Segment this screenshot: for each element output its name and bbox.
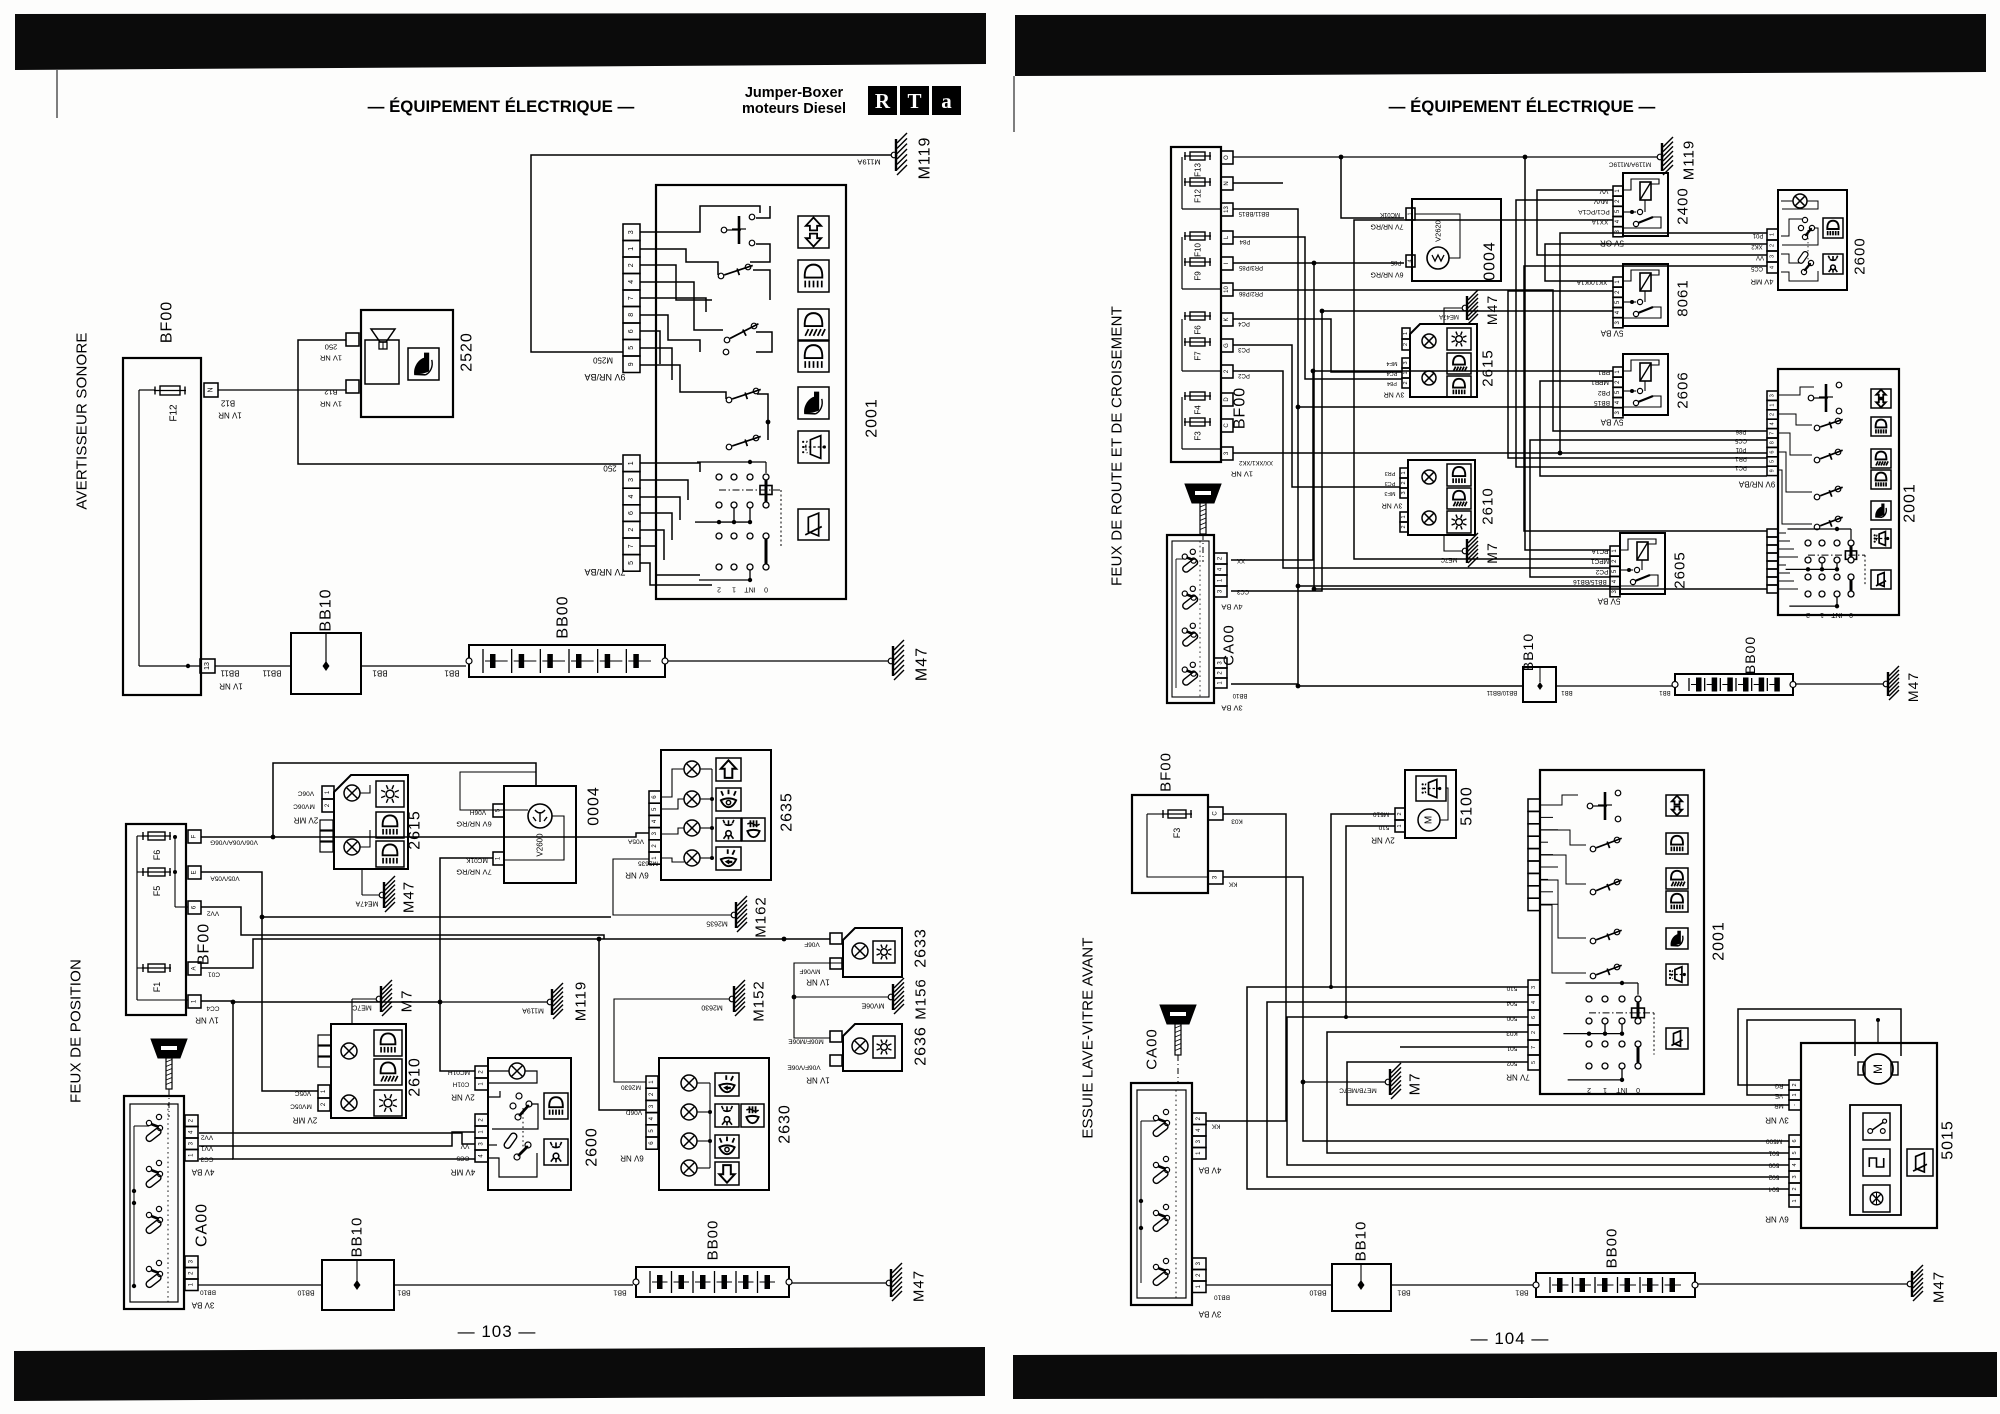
svg-text:7V NR/RG: 7V NR/RG [456, 868, 492, 877]
svg-text:BB00: BB00 [1604, 1228, 1621, 1269]
ground M47 (BR) [1907, 1281, 1913, 1287]
2600 contacts [516, 1093, 522, 1099]
svg-text:510: 510 [1506, 985, 1517, 992]
horn icon [408, 348, 439, 380]
svg-text:ME7B/ME7C: ME7B/ME7C [1339, 1087, 1377, 1094]
icon wiper [798, 509, 829, 540]
svg-text:F10: F10 [1194, 243, 1203, 257]
lamp 2615 b [344, 839, 360, 855]
svg-text:MV06F: MV06F [799, 968, 820, 975]
svg-text:250: 250 [603, 464, 617, 473]
svg-text:XK1/XK1A: XK1/XK1A [1576, 279, 1607, 286]
icon low beam 2600 [544, 1093, 568, 1119]
svg-text:a: a [941, 89, 952, 113]
ignition switch CA00 (BR) [1131, 1083, 1192, 1305]
svg-text:1: 1 [1401, 515, 1407, 518]
svg-text:V05A: V05A [627, 838, 644, 845]
svg-text:MV05C: MV05C [290, 1103, 312, 1110]
svg-text:5: 5 [628, 346, 635, 350]
icon fog 2630 [741, 1104, 764, 1127]
lamp V2600 [528, 804, 552, 828]
svg-text:MV06C: MV06C [293, 803, 315, 810]
svg-text:4V MR: 4V MR [451, 1168, 476, 1177]
svg-text:1V NR: 1V NR [1230, 470, 1253, 479]
svg-text:BB1: BB1 [1515, 1289, 1528, 1296]
svg-text:K03: K03 [1231, 818, 1243, 825]
svg-text:0: 0 [1849, 611, 1853, 618]
fuse F10 (104) [1184, 235, 1211, 237]
svg-text:4: 4 [628, 494, 635, 498]
svg-text:2600: 2600 [584, 1127, 601, 1167]
svg-text:1: 1 [1603, 1086, 1607, 1093]
junction box BB10 (104) [1523, 667, 1556, 702]
pin L (104) [1221, 231, 1233, 244]
lower strip (BR) [1528, 980, 1540, 995]
svg-text:3: 3 [1401, 491, 1407, 494]
svg-text:9: 9 [1770, 469, 1776, 472]
svg-text:2610: 2610 [407, 1057, 424, 1097]
svg-text:3: 3 [628, 478, 635, 482]
motor 5015 [1863, 1054, 1893, 1084]
svg-text:CA00: CA00 [1221, 624, 1238, 666]
svg-text:504: 504 [1506, 1000, 1517, 1007]
icon contact 5015 [1863, 1113, 1890, 1140]
svg-text:M156: M156 [913, 978, 930, 1020]
license lamp 2633 [843, 928, 902, 977]
control box 5015 [1850, 1105, 1901, 1215]
svg-text:3V BA: 3V BA [1221, 704, 1242, 713]
svg-text:P85: P85 [1390, 259, 1401, 265]
pin 13 [200, 659, 215, 673]
svg-text:— 103 —: — 103 — [458, 1322, 537, 1341]
svg-text:4V MR: 4V MR [1750, 278, 1774, 287]
svg-text:CC4: CC4 [206, 1005, 219, 1012]
svg-text:V05/V05A: V05/V05A [210, 875, 240, 882]
icon wiper 5015 [1907, 1149, 1933, 1176]
icon arrow up 2635 [716, 758, 741, 781]
svg-text:ESSUIE LAVE-VITRE AVANT: ESSUIE LAVE-VITRE AVANT [1080, 937, 1097, 1138]
lamps 2610 (104) [1422, 470, 1436, 484]
svg-text:BB15: BB15 [1594, 399, 1610, 406]
pins 2630 [646, 1076, 658, 1088]
svg-text:M7: M7 [399, 990, 416, 1013]
svg-text:1: 1 [1792, 1093, 1798, 1096]
svg-text:V06/V06A/V06G: V06/V06A/V06G [210, 839, 258, 846]
svg-text:M119A: M119A [522, 1007, 544, 1014]
svg-text:N: N [208, 387, 215, 392]
pin I (104) [1221, 257, 1233, 270]
switch contact 4 [726, 397, 732, 403]
svg-text:4V BA: 4V BA [1221, 603, 1242, 612]
svg-text:2V MR: 2V MR [294, 816, 319, 825]
inner horn outline [365, 340, 399, 384]
wire to ground M47 (BL) [792, 1282, 887, 1284]
svg-text:500: 500 [1506, 1015, 1517, 1022]
svg-text:M2630: M2630 [621, 1084, 641, 1091]
svg-text:AVERTISSEUR SONORE: AVERTISSEUR SONORE [74, 332, 91, 509]
svg-text:PR3/P85: PR3/P85 [1238, 264, 1263, 270]
svg-text:MF4: MF4 [1387, 360, 1398, 366]
pin O (104) [1221, 151, 1233, 164]
svg-text:2615: 2615 [1480, 349, 1497, 386]
switch hazard (BR) [1587, 803, 1593, 809]
icon wash wipe [798, 431, 829, 463]
interior lamp 0004 (104) [1412, 199, 1501, 281]
svg-text:2633: 2633 [913, 928, 930, 968]
wire horn to column switch [382, 342, 384, 349]
svg-text:502: 502 [1506, 1060, 1517, 1067]
svg-text:F12: F12 [169, 404, 180, 422]
svg-text:V06F/V06E: V06F/V06E [787, 1064, 821, 1071]
lamp 2610 a [341, 1043, 357, 1059]
svg-text:M119: M119 [1681, 140, 1698, 180]
svg-text:7: 7 [1531, 1046, 1537, 1049]
CA00 pins lower (BR) [1192, 1258, 1206, 1270]
svg-text:ME47A: ME47A [355, 900, 378, 907]
svg-text:M47: M47 [911, 1270, 928, 1302]
svg-text:MV06E: MV06E [861, 1002, 884, 1009]
rotary matrix (104) [1787, 528, 1851, 530]
ground M119 (BL) [547, 999, 553, 1005]
svg-text:O: O [1224, 155, 1230, 160]
rotary matrix (BR) [1566, 982, 1638, 984]
svg-text:BB00: BB00 [1742, 636, 1758, 674]
svg-text:B12: B12 [324, 388, 337, 397]
svg-text:9: 9 [628, 362, 635, 366]
svg-text:M47: M47 [1905, 672, 1921, 702]
svg-text:5: 5 [1531, 1061, 1537, 1064]
svg-text:C01H: C01H [452, 1081, 469, 1088]
svg-text:2001: 2001 [864, 398, 881, 438]
svg-text:2: 2 [1792, 1083, 1798, 1086]
bus CA00 to BB10 (page 103 bottom) [198, 1284, 322, 1286]
svg-text:2635: 2635 [779, 792, 796, 832]
icon 2636 [873, 1036, 895, 1058]
svg-text:5: 5 [1770, 460, 1776, 463]
fuse F7 (104) [1184, 341, 1211, 343]
svg-text:3: 3 [628, 230, 635, 234]
interior light 0004 [504, 786, 576, 883]
svg-text:P84: P84 [1239, 238, 1250, 244]
svg-text:6V NR: 6V NR [1765, 1215, 1789, 1224]
battery BB00 (BL) [636, 1267, 789, 1297]
icon high beam [798, 309, 829, 340]
svg-text:C: C [1213, 811, 1219, 816]
svg-text:M119A/M119C: M119A/M119C [1608, 161, 1651, 168]
svg-text:ME7C: ME7C [352, 1004, 371, 1011]
switch contact 3 [724, 337, 730, 343]
svg-text:BB11: BB11 [220, 669, 240, 678]
pin G (104) [1221, 339, 1233, 352]
pins 2600 upper [475, 1066, 488, 1078]
pin 1 [188, 995, 201, 1008]
pin A [188, 962, 201, 975]
svg-text:F3: F3 [1172, 828, 1182, 839]
pin C (BR) [1208, 807, 1223, 820]
front right light cluster 2610 [331, 1024, 406, 1118]
svg-text:BB15/BB16: BB15/BB16 [1573, 578, 1607, 585]
svg-text:F: F [192, 834, 198, 838]
svg-text:F9: F9 [1194, 271, 1203, 281]
icon low beam [798, 260, 829, 292]
bottom black bar page 104 [1013, 1352, 1997, 1399]
svg-text:M7: M7 [1484, 542, 1500, 563]
pin + 2520 [346, 333, 359, 346]
svg-text:-: - [1792, 1104, 1798, 1106]
contacts 2001-104 [1814, 425, 1820, 431]
ground M7 (2610) [351, 999, 353, 1024]
svg-text:BB1: BB1 [372, 669, 388, 678]
svg-text:4: 4 [628, 280, 635, 284]
svg-text:BB10: BB10 [1520, 633, 1536, 671]
ground M47 [888, 658, 894, 664]
svg-text:V06F: V06F [804, 941, 820, 948]
RTA logo [868, 86, 897, 115]
wire BB00 to ground [668, 660, 889, 662]
svg-text:2: 2 [1401, 481, 1407, 484]
svg-text:1: 1 [1792, 1199, 1798, 1202]
svg-text:BB10: BB10 [200, 1289, 216, 1296]
svg-text:1V NR: 1V NR [319, 400, 342, 409]
icon turn signals [798, 216, 829, 248]
switch hazard [721, 227, 727, 233]
relay 8061 [1623, 264, 1668, 326]
svg-text:VV2: VV2 [206, 910, 219, 917]
svg-text:1V NR: 1V NR [806, 978, 830, 987]
svg-text:7V NR/RG: 7V NR/RG [1370, 223, 1403, 230]
svg-text:2: 2 [628, 263, 635, 267]
svg-text:MPB1: MPB1 [1591, 379, 1609, 386]
icons 2001-104 [1871, 389, 1891, 408]
svg-text:M7: M7 [1407, 1073, 1424, 1096]
icon eye 2635 [716, 788, 741, 811]
svg-text:F6: F6 [152, 850, 162, 861]
fuse F3 (104) [1184, 421, 1211, 423]
svg-text:C: C [1224, 423, 1230, 428]
svg-text:1V NR: 1V NR [195, 1016, 219, 1025]
svg-text:2V NR: 2V NR [1371, 836, 1395, 845]
svg-text:2: 2 [1770, 413, 1776, 416]
svg-text:2606: 2606 [1675, 371, 1692, 408]
icon 2633 [873, 941, 895, 963]
page divider line [1013, 76, 1015, 132]
svg-text:INT: INT [1616, 1086, 1628, 1093]
svg-text:N: N [1224, 181, 1230, 185]
ground M152 [614, 999, 731, 1082]
CA00 pins upper (BR) [1192, 1113, 1206, 1125]
wire M119 to column switch [531, 155, 893, 352]
svg-text:VV2: VV2 [200, 1134, 213, 1141]
fuse F12 (104) [1184, 181, 1211, 183]
svg-text:2630: 2630 [777, 1104, 794, 1144]
svg-text:9V NR/BA: 9V NR/BA [1738, 480, 1775, 489]
svg-text:250: 250 [325, 343, 338, 352]
icon pos star 2610 [374, 1090, 402, 1116]
ground M7 (BR) [1301, 1080, 1306, 1085]
pins 5015 upper [1789, 1080, 1801, 1090]
svg-text:5100: 5100 [1459, 786, 1476, 826]
pin 2 (104) [1221, 365, 1233, 378]
svg-text:M119: M119 [573, 981, 590, 1021]
svg-text:PC3: PC3 [1385, 480, 1396, 486]
horn 2520 [361, 310, 453, 417]
svg-text:FEUX DE ROUTE ET DE CROISEMENT: FEUX DE ROUTE ET DE CROISEMENT [1109, 306, 1126, 586]
icon high beam 2615 [376, 841, 404, 867]
svg-text:BF00: BF00 [196, 923, 213, 965]
svg-text:3: 3 [1770, 394, 1776, 397]
lamp V2620 [1427, 247, 1449, 269]
svg-text:1V NR: 1V NR [218, 411, 242, 420]
svg-text:PB1: PB1 [1597, 369, 1610, 376]
TR wires to 2600/2001 [1560, 233, 1767, 453]
icon wave 5015 [1863, 1149, 1890, 1176]
washer icon 5100 [1416, 776, 1446, 801]
svg-text:PC2: PC2 [1238, 372, 1250, 378]
wire B12 1V NR [218, 389, 346, 391]
svg-text:D: D [1224, 397, 1230, 402]
svg-text:3V NR: 3V NR [1765, 1116, 1789, 1125]
svg-text:0004: 0004 [586, 786, 603, 826]
svg-text:4V BA: 4V BA [1198, 1166, 1221, 1175]
fuse F4 (104) [1184, 395, 1211, 397]
svg-text:K: K [1224, 317, 1230, 321]
svg-text:F6: F6 [1194, 325, 1203, 335]
svg-text:V2620: V2620 [1434, 220, 1443, 242]
wiper motor unit 5015 [1801, 1043, 1937, 1228]
icon arrow down 2630 [715, 1162, 739, 1185]
svg-text:BB11: BB11 [262, 669, 282, 678]
svg-text:8: 8 [628, 313, 635, 317]
pin 13 (104) [1221, 203, 1233, 216]
svg-text:9V NR/BA: 9V NR/BA [584, 372, 625, 382]
svg-text:4: 4 [1408, 259, 1414, 262]
svg-text:BB00: BB00 [555, 595, 572, 638]
svg-text:2: 2 [628, 528, 635, 532]
svg-text:1: 1 [628, 247, 635, 251]
lamp 2636 [852, 1038, 868, 1054]
pins 2635 [649, 791, 661, 803]
ground M47 (2615-104) [1444, 308, 1464, 324]
ground M119 [891, 152, 897, 158]
headlight switch 2600 [488, 1058, 571, 1190]
CA00 pins lower (104) [1214, 658, 1227, 668]
fuse box BF00 (position lights) [126, 824, 186, 1015]
svg-text:FEUX DE POSITION: FEUX DE POSITION [68, 959, 85, 1103]
svg-text:MF3: MF3 [1385, 490, 1396, 496]
svg-text:2: 2 [1806, 611, 1810, 618]
ground M119 (104) [1233, 156, 1658, 158]
svg-text:4: 4 [1770, 266, 1776, 269]
svg-text:2001: 2001 [1711, 921, 1728, 961]
svg-text:MVV: MVV [1593, 198, 1608, 205]
svg-text:BB1: BB1 [397, 1289, 410, 1296]
column switch 2001 (BR) [1540, 770, 1704, 1094]
svg-text:G: G [1224, 343, 1230, 348]
switch hazard (104) [1808, 395, 1814, 401]
contacts 2001-BR [1590, 846, 1596, 852]
ground M47 (2615) [361, 869, 363, 895]
TR relay feed wires [1537, 190, 1767, 255]
svg-text:7: 7 [1770, 432, 1776, 435]
ground M156 [794, 963, 842, 1038]
svg-text:M06F/M06E: M06F/M06E [788, 1038, 824, 1045]
pin N [204, 383, 218, 397]
wiper rotary matrix [640, 463, 700, 472]
svg-text:510: 510 [1378, 824, 1389, 831]
fuse F13 (104) [1184, 155, 1211, 157]
svg-text:M47: M47 [1931, 1271, 1948, 1303]
svg-text:8061: 8061 [1675, 279, 1692, 316]
svg-text:2: 2 [1403, 381, 1409, 384]
svg-text:M2635: M2635 [706, 920, 728, 927]
rear right light cluster 2630 [659, 1058, 769, 1190]
CA00 pins upper [185, 1115, 198, 1127]
svg-text:501: 501 [1506, 1045, 1517, 1052]
svg-text:M2630: M2630 [701, 1004, 723, 1011]
ground M7 (2610-104) [1444, 535, 1464, 551]
svg-text:7: 7 [628, 544, 635, 548]
lamp 2600 (104) [1793, 194, 1807, 208]
icon low beam 2610 [374, 1059, 402, 1085]
wires 2001 to 5015 [1247, 987, 1789, 1189]
svg-text:3V BA: 3V BA [191, 1301, 214, 1310]
icon low beam 2615 [376, 812, 404, 838]
pins 0004 [493, 804, 504, 817]
icon low beam 2600 (104) [1823, 218, 1843, 238]
pin F [188, 830, 201, 843]
pins 2615 [322, 786, 334, 799]
fuse F6 [142, 835, 171, 837]
svg-text:2: 2 [1792, 1187, 1798, 1190]
fuse box BF00 (page 104) [1171, 147, 1221, 462]
bottom black bar page 103 [14, 1347, 985, 1401]
icons 2615 (104) [1447, 328, 1471, 350]
svg-text:5: 5 [628, 561, 635, 565]
BL long wires [201, 833, 649, 837]
switch contact 5 [726, 444, 732, 450]
ignition key (104) [1185, 484, 1221, 503]
svg-text:0: 0 [764, 586, 768, 593]
svg-text:M2635: M2635 [638, 860, 658, 867]
svg-text:moteurs Diesel: moteurs Diesel [742, 101, 846, 117]
upper connector stack (BR) [1528, 799, 1540, 811]
svg-text:5015: 5015 [1940, 1120, 1957, 1160]
CA00 pins upper (104) [1214, 553, 1227, 564]
front right cluster 2610 (104) [1408, 460, 1475, 535]
svg-text:4V BA: 4V BA [191, 1168, 214, 1177]
svg-text:BB10: BB10 [1309, 1289, 1326, 1296]
ground M162 [613, 859, 733, 915]
battery BB00 (104) [1675, 674, 1793, 695]
svg-text:2001: 2001 [1902, 483, 1919, 523]
svg-text:6V NR: 6V NR [625, 871, 649, 880]
svg-text:3: 3 [1531, 986, 1537, 989]
2001-104 internals [1778, 387, 1814, 395]
strip lower 2001 (104) [1767, 529, 1778, 537]
pin C (104) [1221, 419, 1233, 432]
svg-text:B12: B12 [220, 399, 235, 408]
icon horn [798, 387, 829, 419]
svg-text:3: 3 [1770, 255, 1776, 258]
pin 3 (104) [1221, 447, 1233, 460]
svg-text:M162: M162 [753, 896, 770, 938]
pins 2600 (104) [1767, 229, 1778, 240]
svg-text:INT: INT [744, 586, 756, 593]
svg-text:2400: 2400 [1675, 187, 1692, 224]
bus CA00 to BB10 (BR) [1206, 1284, 1332, 1286]
strip upper 2001 (104) [1767, 391, 1778, 400]
lamp 2610 b [341, 1095, 357, 1111]
